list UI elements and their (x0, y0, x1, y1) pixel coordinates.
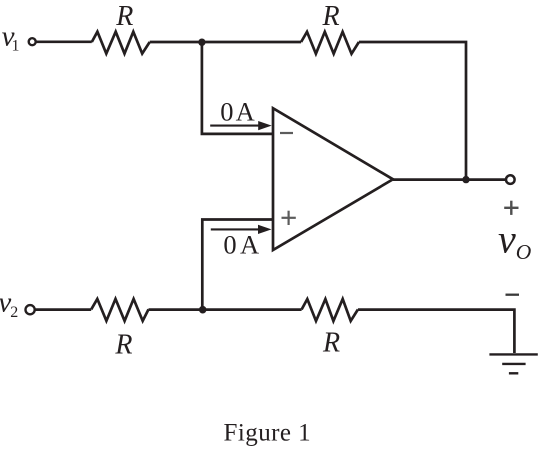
node A (junction) (198, 39, 205, 46)
label + (output polarity) (504, 201, 518, 215)
svg-text:A: A (236, 96, 255, 126)
wire (feedback, top right corner down) (359, 42, 466, 180)
node B (output junction) (462, 176, 469, 183)
wire (to ground, corner down) (358, 310, 515, 353)
svg-text:2: 2 (10, 304, 18, 321)
terminal v2 (26, 305, 35, 314)
wire (36, 40, 91, 43)
svg-text:1: 1 (12, 37, 20, 54)
resistor R2 (301, 32, 359, 54)
current arrow 0A (bottom) (211, 225, 272, 234)
wire (35, 308, 92, 311)
wire (to noninverting input) (202, 220, 273, 310)
label - (output polarity) (506, 294, 520, 296)
op-amp minus marking (280, 132, 293, 134)
resistor R1 (92, 32, 150, 54)
resistor R3 (91, 299, 148, 321)
svg-text:R: R (114, 330, 132, 361)
svg-text:v: v (498, 217, 516, 262)
terminal vo (506, 175, 515, 184)
ground (489, 354, 537, 373)
svg-text:Figure 1: Figure 1 (224, 419, 312, 446)
terminal v1 (29, 38, 36, 45)
svg-text:0: 0 (223, 229, 236, 259)
svg-text:A: A (240, 229, 259, 259)
svg-text:0: 0 (220, 96, 233, 126)
op-amp plus marking (282, 211, 296, 225)
svg-text:R: R (115, 1, 133, 32)
resistor R4 (302, 299, 358, 321)
current arrow 0A (top) (210, 121, 272, 130)
op-amp U1 (273, 108, 393, 250)
wire (output) (393, 178, 506, 181)
wire (to inverting input) (202, 42, 273, 134)
svg-text:R: R (321, 1, 339, 32)
wire (149, 308, 302, 311)
svg-text:R: R (322, 328, 340, 359)
wire (150, 41, 301, 44)
svg-text:O: O (516, 240, 532, 264)
node C (junction) (199, 306, 207, 314)
